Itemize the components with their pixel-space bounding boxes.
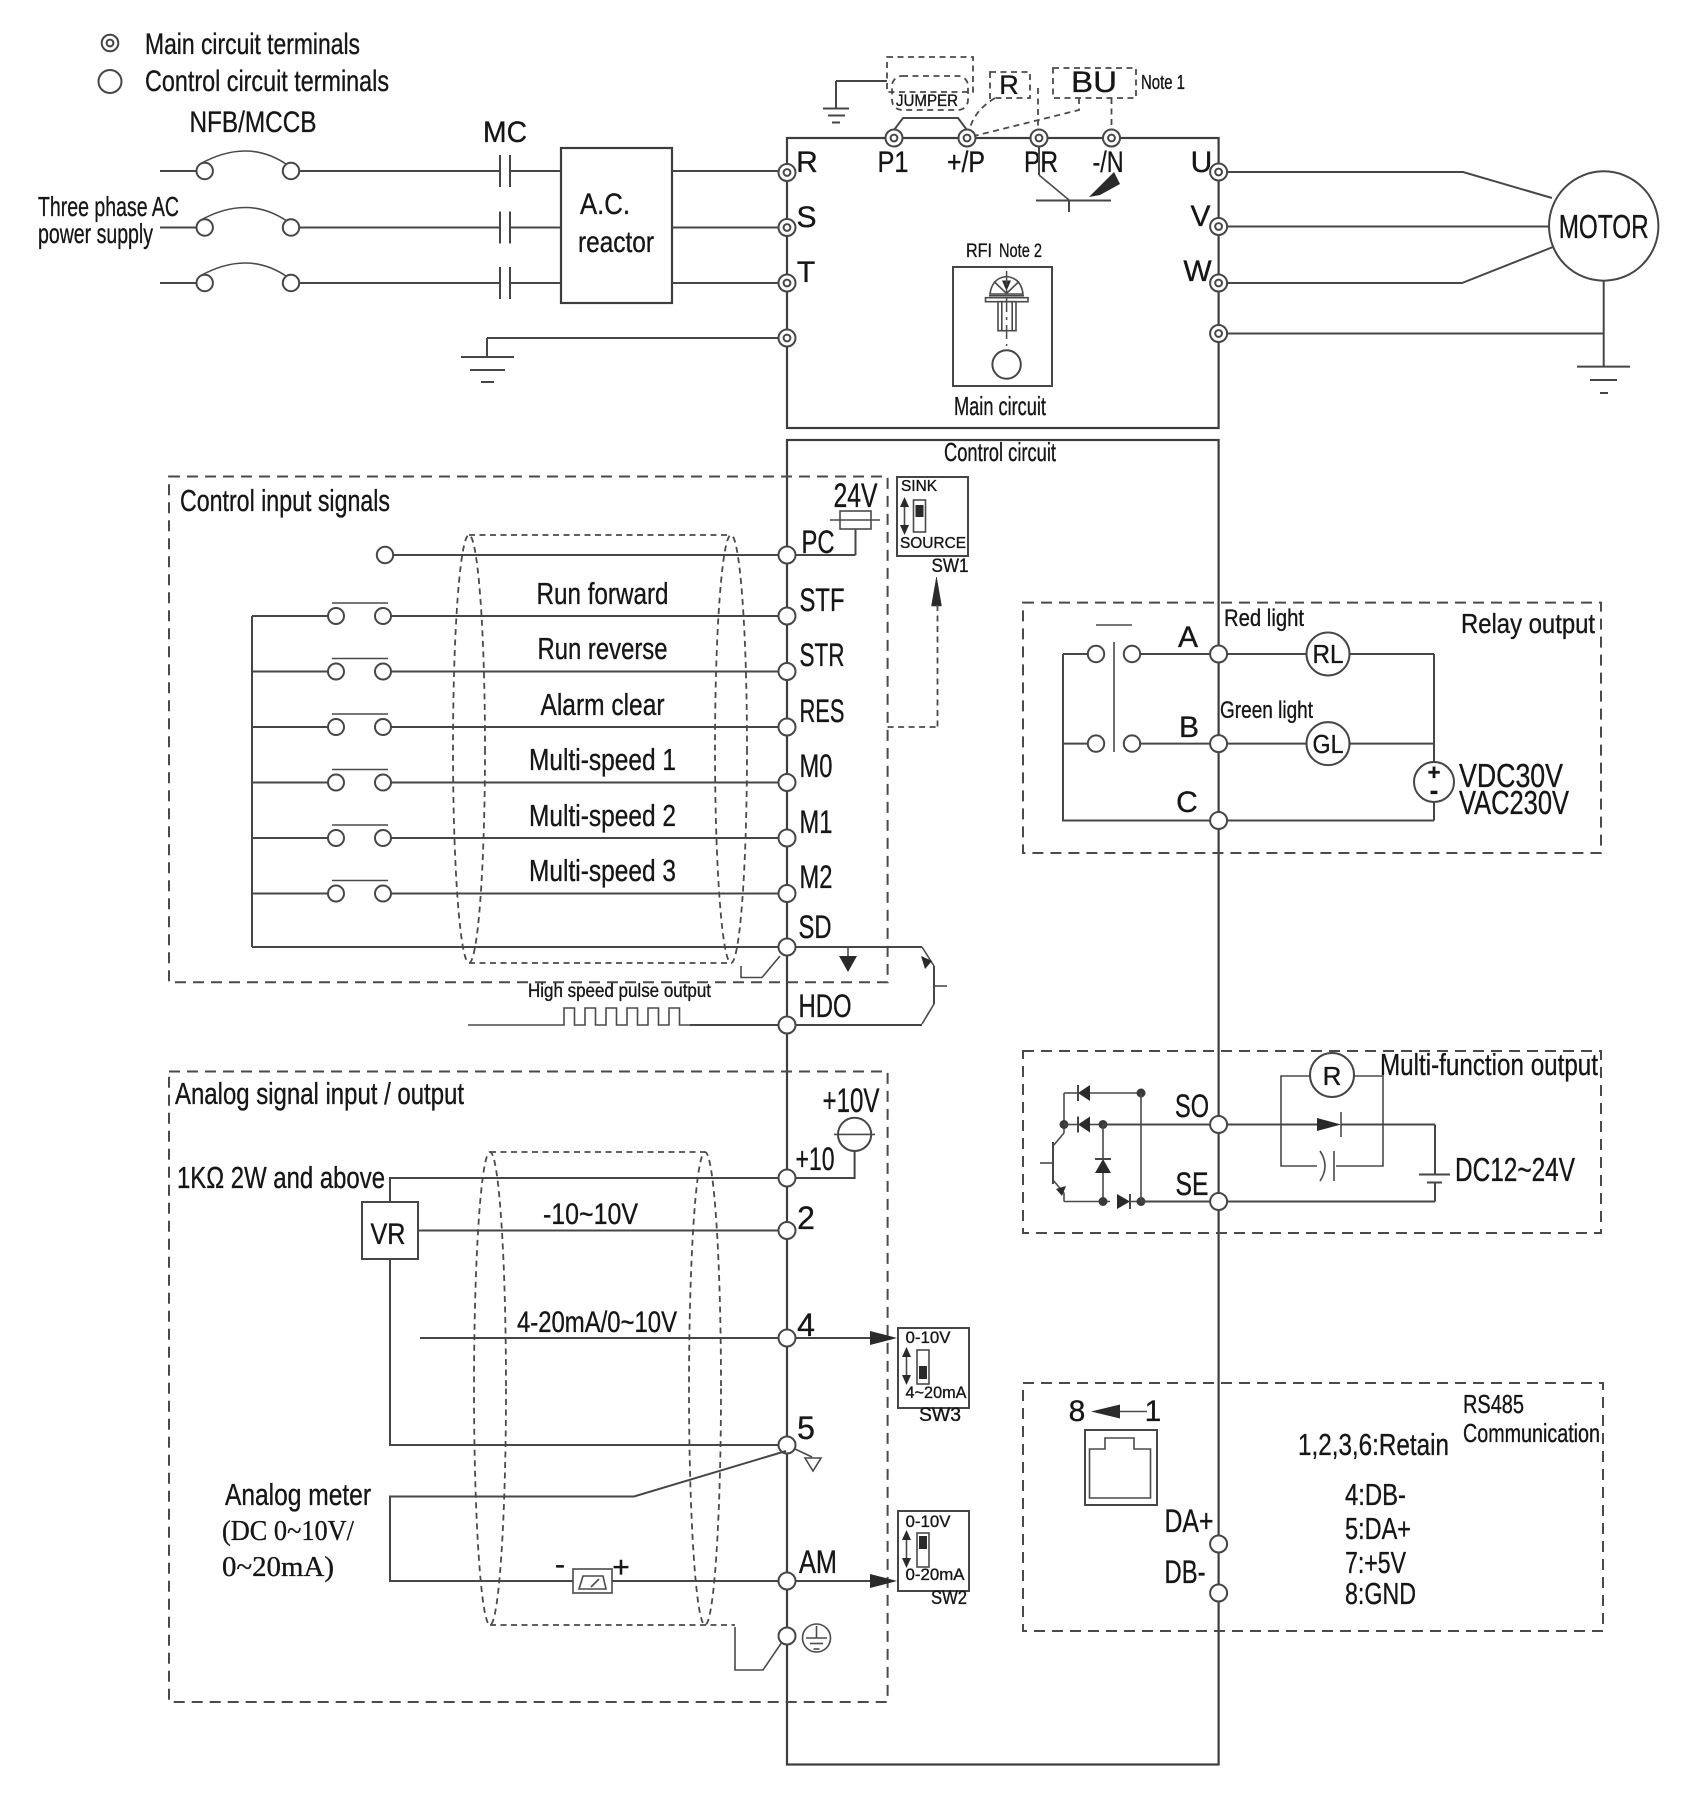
breaker NFB pole 2 [160, 208, 299, 236]
svg-text:RES: RES [800, 693, 845, 729]
svg-text:1: 1 [1145, 1395, 1162, 1428]
svg-text:Note 1: Note 1 [1141, 72, 1185, 94]
switch Run reverse [252, 659, 391, 680]
wire VR to terminal 2 [418, 1230, 779, 1232]
svg-text:Run reverse: Run reverse [538, 631, 668, 666]
wire W to motor [1227, 247, 1553, 283]
svg-text:Relay output: Relay output [1461, 608, 1595, 639]
switch Multi-speed 3 [252, 881, 391, 902]
svg-text:reactor: reactor [578, 226, 654, 259]
terminal W [1210, 275, 1227, 292]
terminal PE input [779, 330, 796, 347]
output transistor [1040, 1133, 1066, 1196]
svg-text:Note 2: Note 2 [999, 241, 1042, 262]
legend: main circuit terminal symbol [102, 35, 119, 52]
right clamp riser [1140, 1093, 1142, 1202]
svg-text:DA+: DA+ [1165, 1503, 1214, 1539]
switch Multi-speed 2 [252, 825, 391, 846]
svg-text:RS485: RS485 [1463, 1389, 1524, 1419]
svg-text:+: + [612, 1551, 630, 1584]
jumper wire P1 to +/P [894, 118, 967, 130]
switch Run forward [252, 603, 391, 624]
terminal M2 [779, 885, 796, 902]
svg-text:DC12~24V: DC12~24V [1455, 1151, 1575, 1188]
junction dot bottom right [1137, 1197, 1146, 1206]
svg-text:VR: VR [371, 1218, 406, 1251]
capacitor in loop [1320, 1151, 1334, 1181]
svg-text:Multi-speed 2: Multi-speed 2 [529, 798, 676, 833]
svg-text:(DC 0~10V/: (DC 0~10V/ [222, 1515, 355, 1547]
wires reactor to R S T terminals [672, 171, 779, 283]
shield cable capsule bottom line [469, 962, 731, 964]
svg-text:MOTOR: MOTOR [1559, 208, 1649, 245]
terminal SD [779, 939, 796, 956]
RFI screw [986, 271, 1029, 346]
wire GL to right bus [1350, 743, 1435, 745]
svg-text:SW2: SW2 [931, 1588, 967, 1609]
terminal -/N [1103, 130, 1120, 147]
svg-text:0~20mA): 0~20mA) [222, 1551, 334, 1583]
arrow 4 to SW3 [796, 1331, 898, 1345]
svg-text:0-10V: 0-10V [906, 1512, 952, 1531]
fuse 24V [830, 511, 880, 555]
wire B to GL [1227, 743, 1306, 745]
terminal DB- [1210, 1585, 1227, 1602]
svg-text:SD: SD [799, 909, 832, 945]
svg-text:R: R [999, 70, 1019, 100]
collector riser [1063, 1093, 1065, 1133]
svg-text:PR: PR [1024, 146, 1058, 179]
RFI circle pad [992, 350, 1020, 378]
wire V to motor [1227, 226, 1549, 228]
analog common marker below 5 [795, 1449, 821, 1471]
terminal B [1210, 735, 1227, 752]
svg-text:RFI: RFI [966, 241, 992, 262]
svg-text:5: 5 [797, 1410, 815, 1446]
multi-function output dashed box [1023, 1051, 1601, 1233]
wire M1 [391, 837, 779, 839]
wire to SE terminal [1141, 1201, 1210, 1203]
svg-text:High speed pulse output: High speed pulse output [528, 981, 712, 1002]
svg-text:DB-: DB- [1165, 1554, 1206, 1590]
svg-text:1KΩ 2W and above: 1KΩ 2W and above [177, 1160, 385, 1195]
pin order marker 8 to 1 [1069, 1395, 1162, 1428]
svg-text:Alarm clear: Alarm clear [541, 687, 665, 722]
wire C to source [1227, 802, 1434, 821]
svg-text:Control input signals: Control input signals [180, 483, 390, 518]
wire PE to motor ground [1227, 333, 1604, 335]
svg-text:Multi-function output: Multi-function output [1380, 1047, 1598, 1082]
svg-text:M2: M2 [800, 859, 833, 895]
terminal DA+ [1210, 1536, 1227, 1553]
svg-text:Red light: Red light [1224, 605, 1304, 632]
motor circle [1549, 171, 1658, 280]
load loop rectangle [1281, 1076, 1383, 1166]
dashed link R box to PR [1037, 88, 1039, 127]
svg-text:SW3: SW3 [919, 1405, 961, 1426]
shield cable capsule left ellipse [453, 535, 485, 963]
svg-text:Multi-speed 3: Multi-speed 3 [529, 853, 676, 888]
wire SO to load loop [1227, 1124, 1320, 1126]
terminal +10 [779, 1170, 796, 1187]
terminal PR [1031, 130, 1048, 147]
svg-text:A: A [1178, 621, 1198, 654]
analog shield capsule right ellipse [689, 1152, 721, 1625]
wire +10V source to +10 terminal [796, 1151, 855, 1178]
motor ground symbol [1577, 281, 1630, 393]
wire input ground to terminal [487, 337, 779, 339]
top clamp diode [1064, 1085, 1141, 1101]
svg-text:4-20mA/0~10V: 4-20mA/0~10V [517, 1306, 677, 1339]
svg-text:SO: SO [1175, 1088, 1209, 1124]
terminal 5 [779, 1437, 796, 1454]
wire A to RL [1227, 653, 1306, 655]
wire VR bottom to terminal 5 [390, 1259, 779, 1445]
svg-text:8:GND: 8:GND [1345, 1576, 1416, 1611]
svg-text:-10~10V: -10~10V [543, 1198, 638, 1231]
svg-text:STF: STF [800, 582, 845, 618]
dashed link BU to -/N [1111, 98, 1113, 127]
svg-text:HDO: HDO [799, 988, 852, 1024]
source VDC30V/VAC230V [1414, 760, 1454, 805]
wire SE row to battery [1227, 1201, 1435, 1203]
terminal PC [779, 547, 796, 564]
shield hook to ground terminal [735, 1627, 782, 1670]
junction dot SO mid [1099, 1120, 1108, 1129]
wire terminal 4 [420, 1337, 779, 1339]
terminal A [1210, 646, 1227, 663]
svg-text:7:+5V: 7:+5V [1345, 1545, 1406, 1580]
svg-text:U: U [1191, 146, 1213, 179]
load R lamp [1310, 1053, 1354, 1097]
svg-text:Analog signal input / output: Analog signal input / output [175, 1076, 464, 1111]
svg-text:R: R [1323, 1061, 1342, 1091]
terminal shield ground [779, 1628, 796, 1645]
bottom rail [1064, 1201, 1110, 1203]
wire SD to transistor [796, 946, 923, 948]
switch box SW3 [898, 1328, 969, 1408]
ground at top left of main box [823, 81, 887, 123]
relay contact A row [1063, 646, 1210, 662]
svg-text:STR: STR [800, 637, 845, 673]
svg-text:P1: P1 [878, 146, 909, 179]
svg-text:AM: AM [799, 1544, 837, 1580]
wire STR [391, 671, 779, 673]
bottom diode [1117, 1194, 1141, 1209]
RJ45 connector [1085, 1430, 1157, 1505]
control input signals dashed box [169, 477, 888, 983]
svg-text:power supply: power supply [38, 218, 153, 249]
SO clamp diode [1064, 1117, 1103, 1133]
wire phase T to MC [299, 282, 499, 284]
svg-text:S: S [796, 201, 816, 234]
svg-text:M1: M1 [800, 804, 833, 840]
svg-text:W: W [1183, 255, 1212, 288]
svg-text:+10: +10 [796, 1141, 835, 1177]
wire phase S to MC [299, 227, 499, 229]
battery DC12~24V [1419, 1125, 1450, 1202]
svg-text:Green light: Green light [1220, 697, 1313, 724]
dashed link BU to +/P [974, 98, 1079, 136]
svg-text:Control circuit: Control circuit [944, 437, 1057, 467]
terminal T [779, 275, 796, 292]
terminal S [779, 219, 796, 236]
relay contact B row [1063, 735, 1210, 751]
right bus relay [1433, 654, 1435, 762]
junction dot bottom left [1099, 1197, 1108, 1206]
lamp RL [1307, 633, 1350, 676]
terminal M0 [779, 774, 796, 791]
terminal V [1210, 218, 1227, 235]
wire STF [391, 615, 779, 617]
svg-text:B: B [1179, 711, 1199, 744]
wire U to motor [1227, 172, 1552, 198]
switch box SW1 SINK/SOURCE [897, 477, 968, 556]
+10V source symbol [834, 1118, 875, 1151]
svg-text:4~20mA: 4~20mA [906, 1383, 968, 1402]
pulse waveform [468, 1008, 690, 1025]
switch box SW2 [898, 1511, 969, 1591]
dashed box R (brake resistor) [990, 72, 1030, 98]
wire to SO terminal [1103, 1124, 1210, 1126]
terminal RES [779, 719, 796, 736]
zener diode mid riser [1095, 1125, 1111, 1202]
svg-text:SE: SE [1176, 1166, 1209, 1202]
switch Alarm clear [252, 714, 391, 735]
svg-text:0-10V: 0-10V [906, 1328, 952, 1347]
terminal R [779, 164, 796, 181]
svg-text:8: 8 [1069, 1395, 1086, 1428]
contactor MC pole 1 [500, 155, 510, 187]
svg-text:Control circuit terminals: Control circuit terminals [145, 65, 389, 98]
analog shield capsule left ellipse [474, 1152, 506, 1625]
jumper outer dashed box [887, 57, 973, 92]
terminal M1 [779, 830, 796, 847]
control circuit box [787, 440, 1219, 1765]
switch Multi-speed 1 [252, 770, 391, 791]
wire M2 [391, 893, 779, 895]
svg-text:PC: PC [802, 524, 835, 560]
analog meter symbol [573, 1569, 612, 1593]
shield connection hook to SD [741, 956, 780, 978]
svg-text:Main circuit: Main circuit [954, 391, 1047, 421]
analog shield capsule bottom line [490, 1624, 735, 1626]
svg-text:MC: MC [483, 116, 527, 149]
junction dot collector SO [1060, 1120, 1069, 1129]
diode arrow down at SD wire [839, 947, 857, 972]
potentiometer VR box [362, 1202, 418, 1259]
emitter riser [1063, 1193, 1065, 1202]
svg-text:VAC230V: VAC230V [1459, 784, 1569, 821]
SW1 slider [914, 500, 926, 532]
svg-text:SOURCE: SOURCE [900, 535, 966, 552]
protective earth symbol [803, 1624, 831, 1652]
svg-text:Main circuit terminals: Main circuit terminals [145, 28, 360, 61]
lamp GL [1307, 722, 1350, 765]
SW1 dashed pointer to RES [888, 577, 942, 727]
svg-text:Run forward: Run forward [537, 576, 669, 611]
svg-text:GL: GL [1313, 729, 1344, 759]
wires MC to reactor [510, 171, 561, 283]
shield cable capsule top line [469, 534, 731, 536]
terminal SE [1210, 1193, 1227, 1210]
wire +10 to VR [390, 1178, 779, 1202]
junction dot top right [1137, 1089, 1146, 1098]
RS485 dashed box [1023, 1383, 1603, 1631]
dashed link R box to +/P [970, 98, 995, 128]
terminal 2 [779, 1222, 796, 1239]
svg-text:-/N: -/N [1093, 146, 1124, 179]
svg-text:+/P: +/P [947, 146, 985, 179]
svg-text:1,2,3,6:Retain: 1,2,3,6:Retain [1298, 1427, 1449, 1462]
wire HDO [690, 1024, 922, 1026]
svg-text:T: T [797, 256, 815, 289]
analog shield capsule top line [490, 1151, 705, 1153]
wire 5 to analog meter loop [390, 1451, 786, 1581]
transistor HDO (open collector) [921, 947, 947, 1024]
breaker NFB pole 1 [160, 151, 299, 179]
svg-text:R: R [796, 146, 818, 179]
wire RES [391, 726, 779, 728]
svg-text:A.C.: A.C. [580, 188, 630, 221]
terminal HDO [779, 1017, 796, 1034]
svg-text:2: 2 [797, 1200, 815, 1236]
wire RL to right bus [1350, 653, 1435, 655]
terminal STR [779, 663, 796, 680]
dashed box BU (brake unit) [1053, 68, 1136, 98]
svg-text:Multi-speed 1: Multi-speed 1 [529, 742, 676, 777]
wire phase R to MC [299, 170, 499, 172]
external circle PC [377, 547, 393, 563]
terminal STF [779, 608, 796, 625]
svg-text:-: - [555, 1548, 565, 1581]
terminal U [1210, 164, 1227, 181]
ground symbol at input [461, 338, 514, 382]
svg-text:+10V: +10V [823, 1082, 880, 1120]
terminal AM [779, 1573, 796, 1590]
svg-text:V: V [1190, 200, 1210, 233]
wire meter to AM [612, 1580, 779, 1582]
svg-text:5:DA+: 5:DA+ [1345, 1511, 1411, 1546]
terminal P1 [886, 130, 903, 147]
wire M0 [391, 782, 779, 784]
arrow AM to SW2 [796, 1574, 898, 1588]
brake chopper switch below PR [1036, 147, 1120, 213]
legend: control circuit terminal symbol [99, 70, 122, 93]
terminal +/P [959, 130, 976, 147]
SW1 double arrow [900, 497, 909, 535]
terminal C [1210, 812, 1227, 829]
contactor MC pole 2 [500, 212, 510, 244]
svg-text:NFB/MCCB: NFB/MCCB [190, 106, 317, 139]
terminal SO [1210, 1116, 1227, 1133]
svg-text:Analog meter: Analog meter [225, 1477, 371, 1512]
relay contact bus left [1063, 654, 1210, 821]
jumper inner dashed outline [892, 76, 968, 110]
svg-text:M0: M0 [800, 748, 833, 784]
analog signal dashed box [169, 1072, 888, 1703]
main circuit box [787, 138, 1219, 428]
left bus for input switches [251, 616, 253, 947]
breaker NFB pole 3 [160, 263, 299, 291]
diode in loop on SO line [1317, 1112, 1435, 1137]
svg-text:4:DB-: 4:DB- [1345, 1477, 1406, 1512]
svg-text:RL: RL [1313, 639, 1344, 669]
wire PC [393, 554, 855, 556]
svg-text:SW1: SW1 [932, 556, 969, 577]
relay output dashed box [1023, 603, 1601, 853]
svg-text:0-20mA: 0-20mA [906, 1565, 966, 1584]
shield cable capsule right ellipse [715, 535, 747, 963]
A.C. reactor box [561, 148, 672, 303]
svg-text:SINK: SINK [901, 478, 937, 495]
svg-text:Communication: Communication [1463, 1418, 1600, 1448]
svg-text:C: C [1176, 786, 1198, 819]
terminal PE output [1210, 325, 1227, 342]
contactor MC pole 3 [500, 267, 510, 299]
svg-text:24V: 24V [834, 477, 878, 515]
svg-text:BU: BU [1071, 66, 1117, 99]
terminal 4 [779, 1330, 796, 1347]
wire SD from bus [252, 946, 779, 948]
RFI screw box [953, 267, 1052, 386]
svg-text:JUMPER: JUMPER [896, 91, 958, 110]
svg-text:-: - [1430, 775, 1439, 805]
relay actuator [1096, 625, 1132, 752]
